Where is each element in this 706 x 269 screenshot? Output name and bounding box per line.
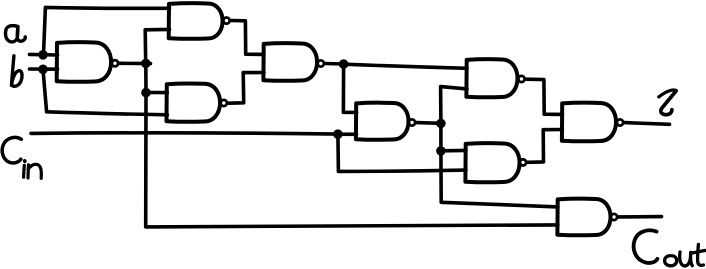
label input a — [5, 26, 25, 42]
wire U1 output to node N1 — [120, 61, 151, 65]
label input b — [12, 56, 23, 86]
label output Cout — [634, 230, 706, 266]
NAND gate U8 (sum output) — [562, 103, 623, 142]
junction node N1 lower — [141, 88, 151, 98]
NAND gate U2 — [169, 3, 230, 39]
junction node N1 upper — [141, 59, 151, 69]
wire net Cin from input to junction — [31, 133, 338, 134]
junction node N5 lower — [436, 146, 446, 156]
junction on input b — [38, 65, 48, 75]
NAND gate U7 — [465, 143, 526, 182]
junction on input a — [38, 50, 48, 60]
wire U3 output to U4 lower input — [228, 73, 264, 104]
junction net Cin — [333, 129, 343, 139]
NAND gate U1 (a NAND b) — [57, 42, 118, 82]
wire U7 output to U8 lower input — [528, 130, 563, 163]
wire node N1 up to U2 lower input — [145, 29, 169, 63]
NAND gate U9 (carry output) — [557, 199, 617, 236]
wire node N4 down to U6 upper input — [343, 64, 356, 112]
wire node N5 up to U5 lower input — [441, 87, 467, 124]
wire node N1 stub to U3 upper input — [146, 91, 167, 95]
NAND gate U3 — [167, 83, 227, 121]
wire U6 output to node N5 — [416, 121, 441, 125]
wire net a up and across top to U2 — [44, 7, 170, 54]
NAND gate U6 — [356, 103, 415, 140]
NAND gate U5 — [466, 59, 524, 97]
wire node N5 down and right to U9 upper input — [441, 151, 558, 207]
wire node N1 down and along bottom to U9 lower input — [146, 93, 558, 227]
NAND gate U4 (a XOR b) — [263, 43, 324, 81]
wire net Cin junction to U6 lower input — [338, 132, 357, 136]
wire node N5 stub to U7 upper input — [441, 149, 466, 153]
wire net Cin down and right to U7 lower input — [338, 134, 466, 171]
label output S — [659, 90, 676, 97]
label net Cin — [2, 137, 41, 178]
wire U8 output to S — [625, 123, 670, 125]
wire net b down and across to U3 — [43, 70, 167, 115]
junction node N5 upper — [436, 119, 446, 129]
wire input b stub — [30, 67, 58, 71]
wire U2 output to U4 upper input — [231, 21, 264, 55]
wire U5 output to U8 upper input — [526, 79, 562, 114]
wire node N5 vertical segment — [439, 123, 443, 150]
wire input a stub — [30, 53, 58, 57]
wire U9 output to Cout — [618, 215, 661, 219]
wire node N4 to U5 upper input — [344, 64, 467, 68]
wire U4 output to node N4 — [325, 62, 343, 66]
junction node N4 — [339, 59, 349, 69]
wire node N1 vertical segment — [144, 63, 148, 92]
